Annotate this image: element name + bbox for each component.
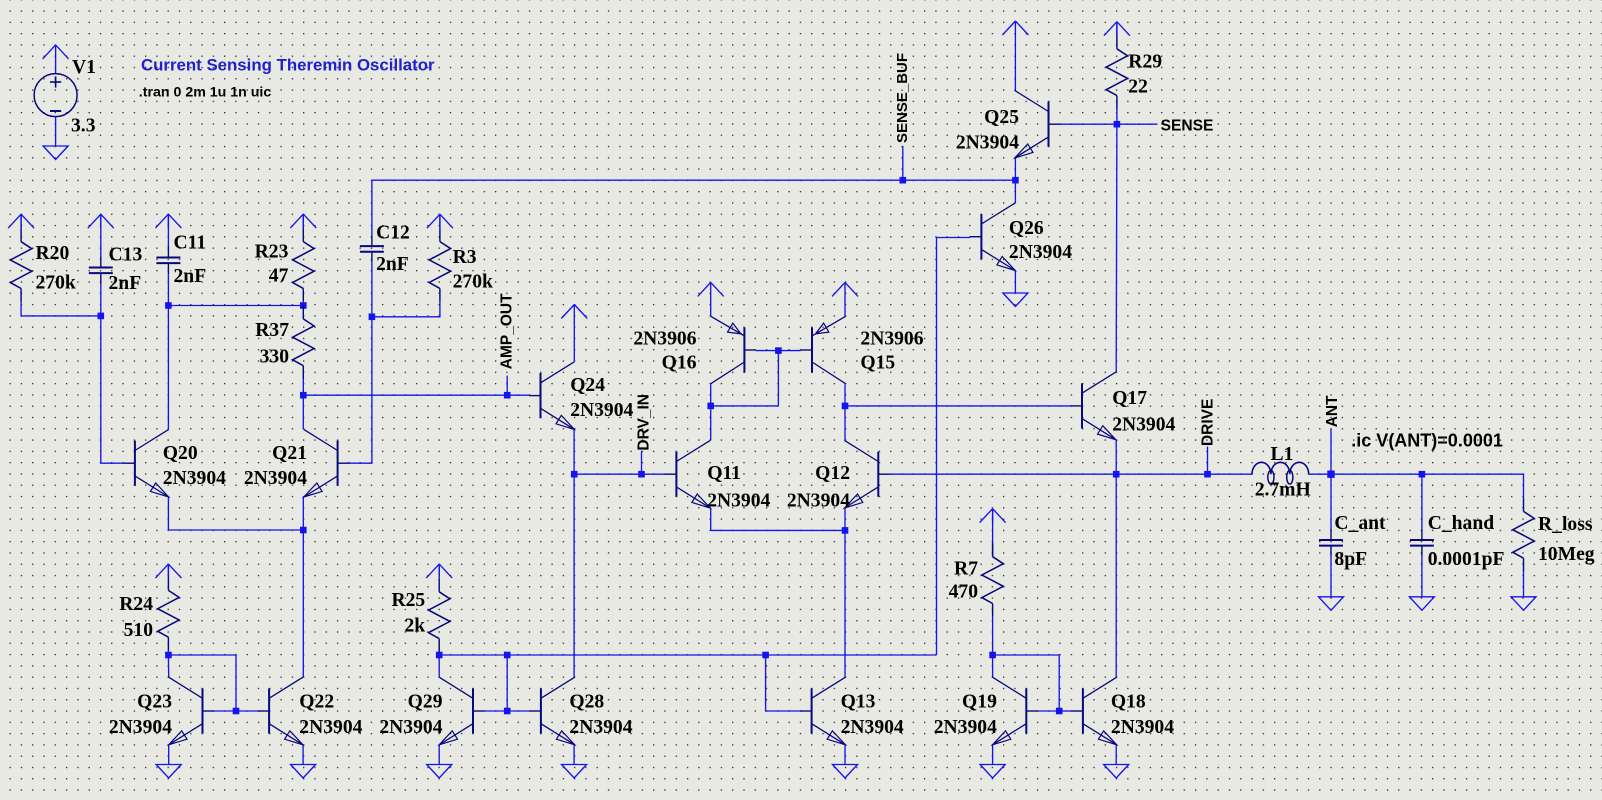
svg-text:10Meg: 10Meg [1538, 544, 1595, 565]
wire [756, 350, 801, 352]
resistor R25 [391, 578, 449, 652]
svg-text:Q17: Q17 [1112, 388, 1147, 409]
ground R_loss [1511, 597, 1536, 611]
junction [300, 302, 307, 309]
wire [302, 379, 304, 395]
wire [1421, 474, 1423, 529]
resistor R29 [1106, 35, 1162, 109]
wire [992, 617, 994, 655]
junction [504, 708, 511, 715]
svg-text:330: 330 [260, 347, 290, 368]
wire [844, 296, 846, 316]
svg-text:SENSE_BUF: SENSE_BUF [894, 53, 911, 143]
wire [100, 284, 102, 316]
transistor Q23 [109, 677, 214, 745]
transistor Q16 [633, 316, 755, 384]
svg-text:L1: L1 [1271, 444, 1294, 465]
svg-text:2N3906: 2N3906 [633, 329, 696, 350]
svg-text:2nF: 2nF [174, 266, 207, 287]
svg-text:R20: R20 [36, 243, 70, 264]
svg-text:Q26: Q26 [1009, 218, 1044, 239]
svg-text:2N3904: 2N3904 [244, 468, 307, 489]
ground C_hand [1409, 597, 1434, 611]
svg-text:2N3904: 2N3904 [569, 717, 632, 738]
wire [844, 745, 846, 765]
resistor R_loss [1513, 498, 1595, 572]
ground Q26 [1003, 293, 1028, 307]
svg-text:R37: R37 [255, 320, 289, 341]
svg-text:3.3: 3.3 [71, 115, 96, 136]
svg-text:Q28: Q28 [569, 692, 604, 713]
svg-text:C_hand: C_hand [1428, 513, 1495, 534]
transistor Q13 [800, 677, 904, 745]
ground Q23 [156, 765, 181, 779]
junction [436, 652, 443, 659]
wire [1330, 474, 1332, 529]
svg-text:Q22: Q22 [299, 692, 334, 713]
wire [1038, 710, 1060, 712]
transistor Q17 [1071, 372, 1176, 440]
svg-text:R25: R25 [391, 590, 425, 611]
svg-text:C_ant: C_ant [1334, 513, 1386, 534]
VCC arrow R7 [980, 509, 1006, 523]
wire [573, 318, 575, 361]
svg-text:8pF: 8pF [1334, 549, 1367, 570]
junction [707, 403, 714, 410]
svg-text:SENSE: SENSE [1161, 117, 1214, 134]
wire [438, 564, 440, 578]
svg-text:DRV_IN: DRV_IN [635, 394, 652, 451]
capacitor C_ant [1319, 513, 1386, 570]
ground Q22 [291, 765, 316, 779]
junction [571, 471, 578, 478]
ground Q18 [1104, 765, 1129, 779]
VCC arrow C13 [88, 214, 114, 228]
VCC arrow R24 [155, 564, 181, 578]
svg-text:2N3904: 2N3904 [109, 717, 172, 738]
svg-text:2N3904: 2N3904 [1009, 242, 1072, 263]
junction [165, 652, 172, 659]
wire [1117, 123, 1158, 125]
svg-text:Q24: Q24 [570, 375, 605, 396]
wire [1115, 440, 1117, 475]
svg-text:2N3904: 2N3904 [707, 491, 770, 512]
wire [844, 406, 846, 441]
capacitor C_hand [1410, 513, 1505, 570]
node SENSE_BUF [900, 177, 907, 184]
svg-text:Q11: Q11 [707, 463, 741, 484]
wire [1207, 447, 1209, 475]
wire [902, 146, 904, 180]
wire [641, 451, 643, 474]
ground C_ant [1319, 597, 1344, 611]
svg-text:Q21: Q21 [272, 443, 307, 464]
svg-text:Q20: Q20 [163, 443, 198, 464]
junction [1113, 471, 1120, 478]
wire [303, 394, 529, 396]
junction [1056, 708, 1063, 715]
wire [20, 214, 22, 228]
wire [1014, 180, 1016, 203]
svg-text:2.7mH: 2.7mH [1255, 480, 1311, 501]
transistor Q15 [801, 316, 924, 384]
wire [1421, 557, 1423, 597]
wire [484, 710, 507, 712]
wire [1523, 572, 1525, 597]
inductor L1 [1252, 444, 1311, 501]
wire [890, 473, 1252, 475]
wire [302, 395, 304, 429]
transistor Q11 [665, 440, 770, 511]
wire [168, 529, 303, 531]
junction [504, 392, 511, 399]
svg-text:2N3904: 2N3904 [1111, 717, 1174, 738]
junction [762, 652, 769, 659]
wire [573, 745, 575, 765]
wire [1116, 22, 1118, 36]
svg-text:2N3904: 2N3904 [299, 717, 362, 738]
transistor Q12 [787, 440, 890, 511]
svg-text:R24: R24 [119, 594, 153, 615]
wire [439, 214, 441, 228]
svg-text:270k: 270k [453, 272, 493, 293]
wire [766, 655, 801, 711]
svg-text:Q18: Q18 [1111, 692, 1146, 713]
svg-text:C11: C11 [174, 233, 207, 254]
wire [372, 179, 1016, 181]
svg-text:.ic V(ANT)=0.0001: .ic V(ANT)=0.0001 [1351, 430, 1503, 450]
transistor Q18 [1072, 677, 1175, 745]
wire [101, 316, 124, 463]
svg-text:DRIVE: DRIVE [1200, 399, 1217, 446]
svg-text:2N3904: 2N3904 [787, 491, 850, 512]
wire [1115, 745, 1117, 765]
svg-text:R29: R29 [1128, 52, 1162, 73]
wire [167, 274, 169, 429]
node DRV_IN [638, 471, 645, 478]
junction [842, 403, 849, 410]
svg-text:270k: 270k [36, 272, 76, 293]
svg-text:ANT: ANT [1324, 395, 1341, 427]
wire [1330, 429, 1332, 474]
junction [989, 652, 996, 659]
wire [507, 710, 529, 712]
VCC arrow Q15 [832, 282, 858, 296]
svg-text:AMP_OUT: AMP_OUT [498, 293, 515, 369]
capacitor C11 [156, 233, 206, 287]
transistor Q19 [934, 677, 1038, 745]
wire [236, 710, 258, 712]
wire [573, 429, 575, 677]
wire [1059, 710, 1071, 712]
junction [842, 527, 849, 534]
VCC arrow R29 [1104, 22, 1130, 36]
wire [349, 263, 372, 464]
wire [168, 305, 303, 307]
transistor Q24 [529, 362, 633, 430]
svg-text:V1: V1 [72, 57, 96, 78]
wire [845, 405, 1071, 407]
svg-text:2N3906: 2N3906 [860, 329, 923, 350]
wire [574, 473, 665, 475]
svg-text:R7: R7 [954, 559, 978, 580]
wire [167, 214, 169, 246]
svg-text:2k: 2k [404, 616, 425, 637]
transistor Q25 [956, 90, 1060, 158]
wire [167, 651, 169, 655]
transistor Q28 [530, 677, 633, 745]
ground V1 [43, 146, 68, 160]
wire [439, 654, 936, 656]
wire [1115, 474, 1117, 677]
VCC arrow R23 [290, 214, 316, 228]
ground Q13 [833, 765, 858, 779]
wire [993, 655, 1060, 711]
resistor R37 [255, 306, 314, 380]
wire [438, 652, 440, 655]
wire [1115, 124, 1118, 372]
transistor Q21 [244, 429, 349, 497]
wire [100, 214, 102, 256]
wire [710, 384, 712, 406]
VCC arrow R3 [427, 214, 453, 228]
svg-text:Q25: Q25 [984, 107, 1019, 128]
wire [438, 745, 440, 765]
svg-text:2N3904: 2N3904 [956, 133, 1019, 154]
node DRIVE [1204, 471, 1211, 478]
node SENSE [1114, 121, 1121, 128]
svg-text:Q13: Q13 [841, 692, 876, 713]
transistor Q29 [379, 677, 484, 745]
svg-text:2N3904: 2N3904 [841, 717, 904, 738]
svg-text:2N3904: 2N3904 [570, 400, 633, 421]
wire [1014, 271, 1016, 294]
wire [372, 302, 440, 317]
junction [504, 652, 511, 659]
wire [1014, 35, 1016, 90]
node ANT [1327, 471, 1334, 478]
junction [98, 313, 105, 320]
wire [167, 497, 169, 530]
svg-text:Q15: Q15 [860, 353, 895, 374]
junction [1419, 471, 1426, 478]
wire [371, 180, 373, 235]
VCC arrow R25 [426, 564, 452, 578]
svg-text:C13: C13 [109, 244, 143, 265]
ground Q28 [562, 765, 587, 779]
wire [844, 508, 846, 530]
wire [167, 655, 169, 677]
wire [438, 655, 440, 677]
svg-text:22: 22 [1128, 77, 1148, 98]
VCC arrow Q16 [698, 282, 724, 296]
junction [300, 527, 307, 534]
wire [992, 745, 994, 765]
svg-text:2N3904: 2N3904 [934, 717, 997, 738]
svg-text:Q19: Q19 [962, 692, 997, 713]
wire [55, 117, 57, 146]
junction [300, 392, 307, 399]
wire [167, 564, 169, 577]
wire [992, 655, 994, 677]
junction [233, 708, 240, 715]
wire [1014, 158, 1016, 180]
transistor Q26 [970, 203, 1072, 271]
wire [1116, 109, 1118, 124]
svg-text:R3: R3 [453, 247, 477, 268]
wire [506, 655, 508, 711]
svg-text:470: 470 [949, 581, 979, 602]
wire [1309, 474, 1524, 498]
resistor R23 [255, 228, 314, 302]
VCC arrow C11 [155, 214, 181, 228]
wire [302, 214, 304, 228]
wire [992, 509, 994, 557]
ground Q29 [427, 765, 452, 779]
wire [21, 302, 101, 316]
svg-text:C12: C12 [376, 223, 410, 244]
transistor Q20 [124, 429, 227, 497]
svg-text:Q16: Q16 [662, 353, 697, 374]
wire [302, 745, 304, 765]
wire [711, 405, 779, 407]
capacitor C12 [360, 223, 410, 275]
wire [844, 530, 846, 677]
svg-text:R_loss: R_loss [1538, 514, 1593, 535]
svg-text:.tran 0 2m 1u 1n uic: .tran 0 2m 1u 1n uic [139, 85, 272, 101]
svg-text:2nF: 2nF [376, 254, 409, 275]
VCC arrow V1 [43, 45, 69, 74]
ground Q19 [980, 765, 1005, 779]
junction [369, 314, 376, 321]
wire [302, 302, 304, 306]
wire [710, 508, 712, 530]
wire [168, 655, 236, 711]
wire [506, 376, 508, 396]
wire [711, 529, 845, 531]
voltage source V1 [34, 57, 96, 136]
svg-text:510: 510 [124, 620, 154, 641]
svg-text:2N3904: 2N3904 [163, 468, 226, 489]
wire [1330, 557, 1332, 597]
svg-text:2N3904: 2N3904 [1112, 414, 1175, 435]
wire [844, 384, 846, 406]
wire [1060, 123, 1117, 125]
VCC arrow R20 [8, 214, 34, 228]
resistor R7 [949, 543, 1004, 617]
VCC arrow Q24 [561, 305, 587, 319]
VCC arrow Q25 [1002, 21, 1028, 35]
svg-text:Q23: Q23 [137, 692, 172, 713]
svg-text:Q12: Q12 [815, 463, 850, 484]
svg-text:Q29: Q29 [408, 692, 443, 713]
junction [165, 302, 172, 309]
resistor R3 [429, 228, 493, 302]
junction [775, 347, 782, 354]
wire [710, 406, 712, 441]
resistor R20 [10, 228, 75, 302]
svg-text:47: 47 [269, 266, 289, 287]
wire [168, 745, 170, 765]
svg-text:Current Sensing Theremin Oscil: Current Sensing Theremin Oscillator [141, 57, 435, 75]
wire [777, 351, 779, 406]
resistor R24 [119, 577, 179, 651]
transistor Q22 [258, 677, 363, 745]
svg-text:R23: R23 [255, 242, 289, 263]
svg-text:2nF: 2nF [109, 273, 142, 294]
wire [302, 497, 304, 678]
wire [214, 710, 236, 712]
capacitor C13 [89, 244, 143, 293]
wire [937, 238, 971, 656]
svg-text:0.0001pF: 0.0001pF [1428, 549, 1505, 570]
wire [710, 296, 712, 316]
svg-text:2N3904: 2N3904 [379, 717, 442, 738]
junction [1012, 177, 1019, 184]
